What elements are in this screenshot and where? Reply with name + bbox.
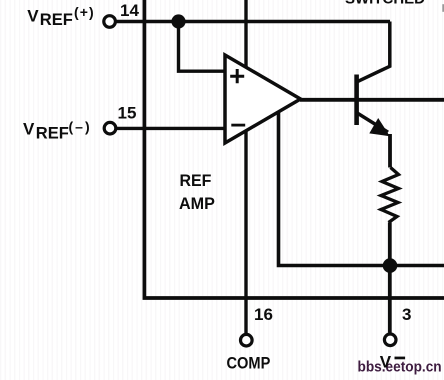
svg-text:AMP: AMP <box>179 194 215 213</box>
svg-text:(+): (+) <box>74 4 95 20</box>
svg-text:REF: REF <box>40 11 73 29</box>
svg-text:SWITCHED: SWITCHED <box>345 0 425 8</box>
svg-text:V: V <box>380 353 392 372</box>
svg-text:3: 3 <box>402 305 411 324</box>
svg-text:14: 14 <box>120 1 139 20</box>
svg-text:16: 16 <box>254 305 273 324</box>
svg-text:REF: REF <box>180 172 212 191</box>
svg-text:V: V <box>27 6 39 25</box>
svg-text:15: 15 <box>118 104 137 123</box>
svg-text:REF: REF <box>36 124 69 142</box>
svg-text:COMP: COMP <box>227 355 271 373</box>
svg-text:bbs.eetop.cn: bbs.eetop.cn <box>358 359 442 376</box>
svg-text:V: V <box>23 120 35 139</box>
svg-text:(–): (–) <box>69 118 92 134</box>
